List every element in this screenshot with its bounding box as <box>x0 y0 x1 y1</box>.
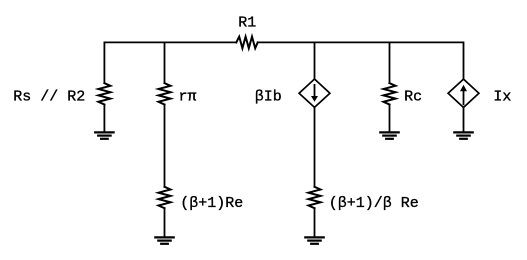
resistor R1 <box>236 37 257 49</box>
wire rpi branch lower <box>164 208 166 237</box>
svg-text:R1: R1 <box>238 14 256 31</box>
wire: left node up and across to R1 <box>104 42 236 83</box>
resistor Rc <box>384 83 396 104</box>
arrow of Ix source (up) <box>460 85 467 106</box>
resistor Rs // R2 <box>98 83 110 104</box>
svg-text:Rc: Rc <box>404 89 422 106</box>
svg-text:βIb: βIb <box>255 88 282 105</box>
wire middle branch middle <box>314 107 316 186</box>
svg-text:Rs // R2: Rs // R2 <box>13 88 85 105</box>
svg-text:(β+1)/β Re: (β+1)/β Re <box>329 195 419 212</box>
ground (Ix branch) <box>454 132 472 138</box>
ground (Rc branch) <box>380 132 398 138</box>
current source Ix (diamond) <box>448 79 479 107</box>
wire Ix branch lower <box>463 108 465 133</box>
resistor rpi <box>159 83 171 104</box>
svg-text:rπ: rπ <box>179 88 197 105</box>
wire middle branch lower <box>314 208 316 237</box>
wire rpi branch middle <box>164 105 166 187</box>
ground (left branch) <box>95 132 113 138</box>
wire left branch lower <box>103 105 105 133</box>
wire: R1 across top and down to Ix source <box>258 42 464 79</box>
resistor (beta+1)Re <box>159 187 171 208</box>
ground (rpi branch) <box>155 237 173 243</box>
wire rpi branch upper <box>164 42 166 83</box>
svg-text:Ix: Ix <box>493 89 511 106</box>
resistor (beta+1)/beta Re <box>309 187 321 208</box>
current source betaIb (diamond) <box>299 79 330 107</box>
arrow of betaIb source (down) <box>311 84 318 102</box>
svg-text:(β+1)Re: (β+1)Re <box>180 195 243 212</box>
ground (middle branch) <box>305 237 323 243</box>
wire Rc branch lower <box>389 105 391 133</box>
wire middle branch upper <box>314 42 316 79</box>
wire Rc branch upper <box>389 42 391 83</box>
